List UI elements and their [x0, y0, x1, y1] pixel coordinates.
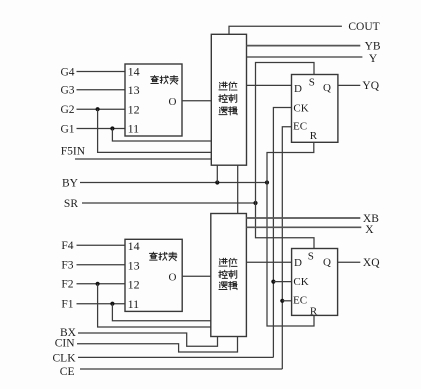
- junction CK net to U6: [271, 280, 275, 284]
- junction G1 branch: [110, 126, 114, 130]
- wire carry chain between U2 and U4: [237, 165, 239, 213]
- svg-text:13: 13: [128, 83, 140, 97]
- wire G2 to pin 12: [77, 108, 126, 110]
- label 查找表 of U1: [151, 75, 178, 84]
- svg-text:D: D: [294, 83, 302, 95]
- svg-text:O: O: [169, 96, 177, 108]
- svg-text:CK: CK: [293, 276, 308, 288]
- wire CE: [80, 368, 282, 370]
- wire G3 to pin 13: [77, 89, 126, 91]
- svg-text:11: 11: [128, 122, 140, 136]
- junction F2 branch: [96, 282, 100, 286]
- svg-text:F2: F2: [61, 279, 73, 291]
- wire COUT from U2 top: [229, 26, 342, 34]
- wire Y from U2: [246, 56, 362, 58]
- svg-text:Q: Q: [323, 256, 331, 268]
- wire EC net: CE to EC of U5: [282, 127, 291, 369]
- wire X from U4: [246, 226, 361, 228]
- junction BY to R net: [265, 180, 269, 184]
- svg-text:F1: F1: [61, 299, 73, 311]
- svg-text:F4: F4: [61, 240, 73, 252]
- wire SR: [82, 202, 256, 204]
- wire BY: [80, 182, 267, 184]
- wire XQ from Q of U6: [338, 261, 361, 263]
- wire F1 branch to carry logic U4: [112, 304, 210, 321]
- junction SR to S net: [253, 201, 257, 205]
- svg-text:F3: F3: [61, 260, 73, 272]
- lookup table U1 box: [125, 64, 182, 136]
- svg-text:12: 12: [128, 102, 140, 116]
- wire F5IN to carry logic U2: [75, 158, 211, 160]
- wire O of U1 to carry logic U2: [182, 100, 211, 102]
- wire F3 to pin 13: [77, 264, 126, 266]
- svg-text:YB: YB: [365, 40, 381, 52]
- wire F4 to pin 14: [77, 244, 126, 246]
- wire D input of flip-flop U6 from U4: [246, 261, 291, 263]
- svg-text:G3: G3: [60, 85, 74, 97]
- flip-flop U6 box: [292, 249, 338, 316]
- wire CK net: CLK to CK of U5: [273, 108, 291, 358]
- svg-text:EC: EC: [293, 294, 307, 306]
- svg-text:G2: G2: [60, 104, 74, 116]
- svg-text:D: D: [294, 257, 302, 269]
- wire CLK: [78, 356, 273, 358]
- lookup table U3 box: [125, 239, 182, 311]
- svg-text:SR: SR: [64, 198, 78, 210]
- svg-text:Y: Y: [369, 53, 378, 65]
- wire F1 to pin 11: [77, 303, 126, 305]
- wire G4 to pin 14: [77, 71, 126, 73]
- wire YQ from Q of U5: [338, 84, 361, 86]
- svg-text:COUT: COUT: [348, 21, 379, 33]
- label 进位控制逻辑 of U4: [219, 258, 237, 289]
- svg-text:R: R: [310, 130, 318, 142]
- svg-text:11: 11: [128, 297, 140, 311]
- wire YB from U2: [247, 45, 361, 47]
- label 查找表 of U3: [149, 252, 176, 261]
- svg-text:XQ: XQ: [363, 257, 380, 269]
- wire G2 branch to carry logic U2: [98, 109, 212, 152]
- svg-text:O: O: [169, 272, 177, 284]
- svg-text:EC: EC: [293, 120, 307, 132]
- svg-text:BY: BY: [62, 178, 79, 190]
- svg-text:12: 12: [128, 277, 140, 291]
- wire G1 to pin 11: [77, 128, 126, 130]
- svg-text:14: 14: [128, 65, 140, 79]
- svg-text:CE: CE: [60, 366, 75, 378]
- wire R net: BY to R pins of U5 and U6: [267, 142, 314, 326]
- wire G1 branch to carry logic U2: [112, 129, 211, 142]
- svg-text:CK: CK: [293, 103, 308, 115]
- wire O of U3 to carry logic U4: [182, 275, 211, 277]
- junction BY to carry logic U2: [215, 180, 219, 184]
- wire BX to carry logic U4 bottom: [78, 333, 218, 346]
- label 进位控制逻辑 of U2: [219, 82, 237, 115]
- wire F2 branch to carry logic U4: [98, 284, 211, 327]
- wire D input of flip-flop U5 from U2: [246, 84, 291, 86]
- svg-text:S: S: [309, 77, 315, 89]
- svg-text:R: R: [310, 305, 318, 317]
- svg-text:YQ: YQ: [362, 80, 379, 92]
- carry control logic U4 box: [211, 214, 247, 337]
- svg-text:G1: G1: [60, 123, 74, 135]
- wire S net: SR to S pins of U5 and U6: [256, 63, 315, 249]
- junction F1 branch: [110, 302, 114, 306]
- svg-text:G4: G4: [60, 67, 74, 79]
- junction EC net to U6: [280, 299, 284, 303]
- svg-text:13: 13: [128, 258, 140, 272]
- svg-text:XB: XB: [363, 213, 379, 225]
- wire EC branch to EC of U6: [282, 300, 291, 302]
- carry control logic U2 box: [211, 34, 246, 165]
- wire BY branch up to carry logic U2 bottom: [216, 165, 218, 182]
- wire CK branch to CK of U6: [273, 281, 291, 283]
- svg-text:Q: Q: [323, 82, 331, 94]
- svg-text:S: S: [308, 250, 314, 262]
- flip-flop U5 box: [292, 75, 338, 143]
- svg-text:CLK: CLK: [53, 353, 77, 365]
- wire CIN to carry logic U4 bottom: [77, 337, 238, 353]
- svg-text:CIN: CIN: [55, 338, 76, 350]
- svg-text:14: 14: [128, 239, 140, 253]
- wire XB from U4: [246, 217, 360, 219]
- svg-text:F5IN: F5IN: [61, 145, 86, 157]
- svg-text:X: X: [365, 224, 374, 236]
- junction G2 branch: [96, 107, 100, 111]
- wire F2 to pin 12: [77, 283, 126, 285]
